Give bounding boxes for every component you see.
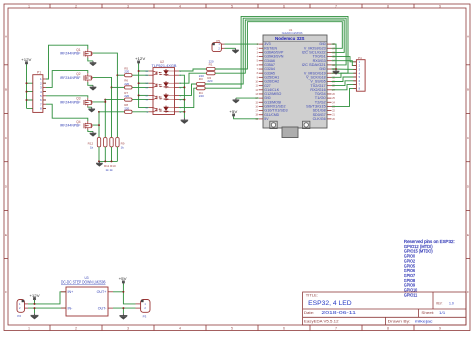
svg-text:IRFZ44NPBF: IRFZ44NPBF <box>60 76 81 80</box>
svg-text:2: 2 <box>75 327 77 331</box>
optocoupler U2 TLP521-4XGB <box>145 60 181 114</box>
labels R11 R10 values <box>104 164 116 172</box>
svg-text:OUT-: OUT- <box>98 307 107 311</box>
svg-text:5V: 5V <box>264 117 269 121</box>
regulator U3 DC-DC STEP DOWN LM2596 <box>61 276 113 316</box>
resistor R12 1k <box>97 138 100 147</box>
svg-text:F: F <box>5 290 7 294</box>
label R12 value <box>88 142 94 150</box>
wire U1 G16 to P4 pin7 <box>332 85 357 90</box>
transistor Q3 IRFZ44NPBF <box>60 97 93 107</box>
svg-text:Drawn By:: Drawn By: <box>388 320 411 324</box>
wire U1 G5 to P4 pin5 <box>332 77 357 82</box>
note reserved pins text <box>404 239 455 297</box>
power flag +5V (U3 out) <box>119 277 128 285</box>
svg-text:CLK/G6: CLK/G6 <box>313 117 326 121</box>
connector P3 <box>136 300 151 319</box>
svg-text:9: 9 <box>439 4 441 8</box>
wire U1 G15 to P4 pin8 <box>332 88 357 106</box>
wire U1 G17 to P4 pin6 <box>332 81 357 86</box>
svg-text:8: 8 <box>387 4 389 8</box>
resistor R11 1k <box>104 138 107 147</box>
svg-text:IN+: IN+ <box>68 290 74 294</box>
label R9 value <box>121 142 125 150</box>
wire +5V flag to U1 5V pin <box>234 117 259 119</box>
svg-text:3: 3 <box>127 327 129 331</box>
svg-text:A: A <box>5 35 7 39</box>
wire GPIO19 bundle to R4 <box>205 16 348 88</box>
wire +12V rail to P1 even pins <box>27 65 47 109</box>
power flag +5V (U1 5V pin) <box>229 110 238 118</box>
ground (U1 right GND) <box>333 69 340 74</box>
svg-text:+5V: +5V <box>119 277 128 281</box>
svg-text:R3: R3 <box>199 77 203 81</box>
svg-text:TITLE:: TITLE: <box>306 294 318 298</box>
svg-text:A: A <box>467 35 469 39</box>
wire U2 anode3 to R3 <box>179 84 197 95</box>
svg-text:+5V: +5V <box>229 110 238 114</box>
resistor R9 1k <box>116 138 119 147</box>
svg-text:1k: 1k <box>121 146 125 150</box>
svg-text:R1: R1 <box>209 63 213 67</box>
wire Q3 gate column upper part <box>104 100 106 102</box>
resistor R3 220 <box>197 74 206 86</box>
wire Q2 gate column (net GATE2) <box>93 77 112 137</box>
resistor R5 220 <box>117 67 148 77</box>
svg-text:P2: P2 <box>17 314 21 318</box>
svg-text:E: E <box>5 233 7 237</box>
wire Q2 source to ground <box>88 82 93 85</box>
wire Q1 source to ground <box>88 58 93 61</box>
svg-text:220: 220 <box>124 82 129 86</box>
resistor R2 220 <box>207 72 216 83</box>
connector P1 <box>33 71 46 113</box>
wire R8 to GATE4 column <box>98 112 100 125</box>
power flag +12V (U2 collectors) <box>135 57 146 65</box>
svg-text:F: F <box>467 290 469 294</box>
wire P2 pin2 to U3 IN- and ground <box>28 308 66 313</box>
svg-text:IRFZ44NPBF: IRFZ44NPBF <box>60 101 81 105</box>
svg-text:1k 1k: 1k 1k <box>106 168 114 172</box>
svg-text:220: 220 <box>124 94 129 98</box>
svg-text:mikejac: mikejac <box>415 320 433 324</box>
ground (P2 minus) <box>31 313 39 319</box>
wire U2 anode2 to R2 <box>179 73 207 83</box>
svg-text:7: 7 <box>335 4 337 8</box>
wire U1 GND pins to ground (right) <box>332 44 357 69</box>
wire P1 pin5 to Q3 drain <box>46 96 88 98</box>
resistor R1 220 <box>207 59 216 70</box>
ground (Q4 source) <box>90 131 97 136</box>
svg-text:4: 4 <box>179 4 181 8</box>
wire P1 pin1 to Q1 drain <box>46 45 88 79</box>
wire U2 cathode common <box>179 75 184 118</box>
svg-text:7: 7 <box>335 327 337 331</box>
junction dots U3 out <box>122 291 124 309</box>
power flag +12V (P1 rail) <box>21 58 32 66</box>
wire U3 OUT- to P3 pin2 and ground <box>113 308 136 313</box>
ground (pulldown common) <box>96 161 103 166</box>
svg-text:IRFZ44NPBF: IRFZ44NPBF <box>60 52 81 56</box>
wire P5 pin1 to U1 3V3 <box>225 43 259 45</box>
wire Q1 gate column (net GATE1) <box>93 53 118 137</box>
ground (Q2 source) <box>90 85 97 90</box>
wire GPIO22 bundle to R2 <box>215 20 344 73</box>
svg-text:220: 220 <box>124 70 129 74</box>
wire U1 RX0 to P4 pin2 <box>332 61 357 66</box>
transistor Q2 IRFZ44NPBF <box>60 72 93 82</box>
svg-text:1: 1 <box>28 327 30 331</box>
resistor R4 220 <box>197 87 206 98</box>
ground (U3 OUT-) <box>119 313 127 319</box>
svg-text:Nodemcu 32S: Nodemcu 32S <box>275 36 305 41</box>
connector P4 <box>353 56 365 91</box>
svg-text:P3: P3 <box>143 315 147 319</box>
transistor Q1 IRFZ44NPBF <box>60 48 93 58</box>
svg-text:+12V: +12V <box>135 57 146 61</box>
module U1 NodeMCU-ESP32S <box>255 28 335 138</box>
svg-text:EasyEDA V5.5.12: EasyEDA V5.5.12 <box>304 320 339 324</box>
svg-text:1k: 1k <box>90 146 94 150</box>
junction dots P2 <box>34 303 36 309</box>
svg-text:IRFZ44NPBF: IRFZ44NPBF <box>60 124 81 128</box>
svg-text:P1: P1 <box>37 71 41 75</box>
svg-text:REV:: REV: <box>436 301 442 305</box>
svg-text:Date:: Date: <box>304 311 314 315</box>
svg-text:220: 220 <box>124 106 129 110</box>
junction dots pulldown common <box>98 160 112 162</box>
svg-text:B: B <box>467 87 469 91</box>
resistor R10 1k <box>110 138 113 147</box>
svg-text:2: 2 <box>75 4 77 8</box>
wire Q3 gate column (net GATE3) <box>93 102 106 138</box>
wire Q4 gate column (net GATE4) <box>93 125 99 137</box>
wire U1 G18 to P4 pin4 <box>332 73 357 77</box>
svg-text:Sheet:: Sheet: <box>421 311 434 315</box>
connector P2 <box>17 300 28 319</box>
wire U1 GND(left) to ground <box>236 97 259 99</box>
transistor Q4 IRFZ44NPBF <box>60 120 93 130</box>
wire GPIO23 bundle to R1 <box>215 22 342 69</box>
ground (P5 pin2) <box>232 48 239 53</box>
svg-text:OUT+: OUT+ <box>97 290 107 294</box>
resistor R8 220 <box>99 103 149 113</box>
svg-text:4: 4 <box>179 327 181 331</box>
svg-text:E: E <box>467 233 469 237</box>
wire U2 anode4 to R4 <box>179 88 197 107</box>
svg-text:220: 220 <box>199 94 204 98</box>
svg-text:9: 9 <box>439 327 441 331</box>
wire pulldown commons to ground <box>99 147 117 162</box>
connector P5 <box>212 39 225 52</box>
svg-text:6: 6 <box>283 327 285 331</box>
wire U1 TX0 to P4 pin1 <box>332 57 357 62</box>
power flag +12V (P2) <box>29 294 40 302</box>
wire Q4 source to ground <box>88 130 93 132</box>
ground (Q1 source) <box>90 61 97 66</box>
junction dots gate columns <box>98 74 118 126</box>
svg-text:DC-DC STEP DOWN LM2596: DC-DC STEP DOWN LM2596 <box>61 280 106 285</box>
svg-text:GPIO11: GPIO11 <box>404 292 418 297</box>
resistor R7 220 <box>105 91 148 101</box>
svg-text:ESP32, 4 LED: ESP32, 4 LED <box>308 300 352 307</box>
svg-text:3: 3 <box>127 4 129 8</box>
ground (U1 left GND) <box>233 98 240 103</box>
svg-text:8: 8 <box>387 327 389 331</box>
junction dots on +12V rail <box>26 82 28 101</box>
wire P1 pin3 to Q2 drain <box>46 71 88 88</box>
svg-text:220: 220 <box>207 79 212 83</box>
svg-text:5: 5 <box>231 4 233 8</box>
svg-text:2018-06-11: 2018-06-11 <box>321 310 357 315</box>
resistor R6 220 <box>112 79 149 89</box>
junction dots U2 cathode common <box>183 86 185 112</box>
svg-text:6: 6 <box>283 4 285 8</box>
wire P1 pin7 to Q4 drain <box>46 104 88 121</box>
svg-text:5: 5 <box>231 327 233 331</box>
wire Q3 source to ground <box>88 106 92 109</box>
wire U2 anode1 to R1 <box>179 69 207 71</box>
junction dots U2 +12V rail <box>138 70 140 96</box>
wire +12V rail to U2 collector pins <box>139 64 149 108</box>
wire P5 pin2 to ground <box>225 47 236 49</box>
wire P2 pin1 to U3 IN+ <box>28 292 66 304</box>
wire GPIO21 bundle to R3 <box>205 18 346 84</box>
svg-text:NodeMCU-ESP32S: NodeMCU-ESP32S <box>282 31 303 35</box>
ground (Q3 source) <box>88 107 95 112</box>
svg-text:B: B <box>5 87 7 91</box>
svg-text:P4: P4 <box>358 56 362 60</box>
svg-text:1.0: 1.0 <box>449 301 454 305</box>
svg-text:1/1: 1/1 <box>439 311 445 315</box>
svg-text:1: 1 <box>28 4 30 8</box>
junction dot right GND <box>335 68 337 70</box>
wire U3 OUT+ to P3 pin1 <box>113 284 136 304</box>
svg-text:IN-: IN- <box>68 307 74 311</box>
ground (U2 cathode common) <box>181 118 189 124</box>
